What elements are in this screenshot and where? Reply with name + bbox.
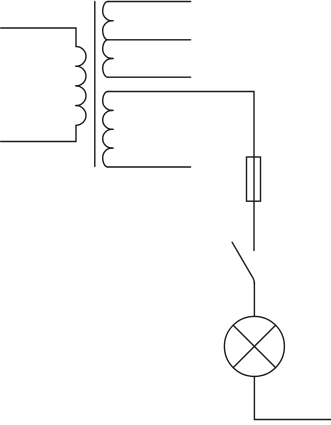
- fuse F1: [247, 157, 261, 201]
- secondary 1 tap bottom: [108, 76, 191, 78]
- primary winding: [76, 47, 86, 67]
- wire primary top lead: [1, 28, 76, 47]
- lamp L1: [224, 316, 284, 376]
- switch S1: [232, 242, 254, 284]
- lamp X stroke 1: [233, 325, 275, 367]
- secondary winding 2 cusp tips: [111, 109, 114, 111]
- wire primary bottom lead: [1, 125, 76, 141]
- transformer T1: [1, 2, 191, 168]
- lamp X stroke 2: [233, 325, 275, 367]
- primary winding cusp tips: [76, 65, 78, 67]
- core: [94, 2, 96, 167]
- secondary winding 1 (top): [103, 2, 112, 21]
- secondary winding 2 (bottom): [103, 92, 112, 111]
- wire through fuse: [253, 157, 255, 251]
- secondary 1 tap middle: [108, 39, 191, 41]
- wire switch to lamp: [253, 282, 255, 316]
- secondary winding 1 cusp tips: [111, 20, 114, 22]
- wire secondary 2 top tap to fuse: [108, 92, 254, 158]
- wire lamp to output: [254, 376, 331, 419]
- secondary 1 tap top: [108, 1, 191, 3]
- secondary 2 tap bottom: [108, 166, 191, 168]
